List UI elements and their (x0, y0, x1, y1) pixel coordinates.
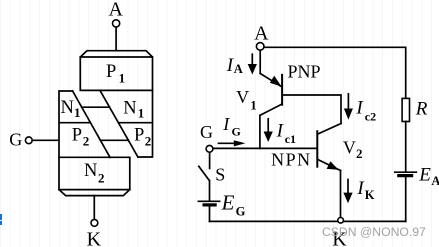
N1-P2 left box outline (59, 91, 90, 157)
battery EG (198, 201, 219, 205)
node G circle (circuit) (206, 145, 213, 152)
wire EA to bottom (405, 177, 407, 221)
label P1 (106, 62, 125, 86)
svg-text:2: 2 (98, 170, 105, 185)
label IK (356, 178, 374, 202)
terminal label K (left structure) (87, 228, 102, 247)
label P2 right (134, 126, 151, 149)
svg-text:A: A (108, 0, 123, 21)
wire A lead (left structure) (115, 27, 117, 50)
label V2 (343, 137, 363, 161)
svg-text:1: 1 (138, 105, 145, 120)
label Ic1 (276, 120, 296, 146)
V1 emitter diagonal with arrowhead (PNP) (260, 74, 281, 87)
svg-text:N: N (123, 99, 136, 119)
terminal label G (left structure) (9, 129, 22, 149)
terminal label A (left structure) (108, 0, 123, 21)
svg-text:P: P (106, 62, 116, 82)
wire V1 collector down to gate line (259, 115, 261, 148)
label S (215, 165, 225, 185)
svg-text:1: 1 (74, 105, 81, 120)
V1 collector diagonal (260, 104, 282, 115)
node label K (circuit) (332, 229, 347, 247)
label N2 (84, 161, 105, 185)
wire V2 emitter down to K (340, 171, 342, 218)
svg-text:A: A (431, 174, 439, 188)
current arrow IG (219, 140, 246, 146)
svg-text:V: V (343, 137, 356, 157)
svg-text:P: P (72, 126, 82, 146)
N1-P2 right box outline (118, 90, 152, 157)
diagonal cut line 2 (100, 90, 138, 157)
svg-text:E: E (221, 190, 235, 214)
current arrow IK (343, 180, 352, 204)
node label G (circuit) (200, 122, 213, 142)
svg-text:R: R (415, 98, 428, 119)
svg-text:c2: c2 (365, 109, 376, 123)
svg-text:c1: c1 (285, 132, 296, 146)
svg-text:PNP: PNP (288, 62, 321, 82)
node K circle (circuit) (338, 218, 344, 224)
label R (415, 98, 428, 119)
P1 layer slab (3D box) (80, 51, 152, 91)
label PNP (288, 62, 321, 82)
terminal K circle (left structure) (91, 220, 98, 227)
svg-text:G: G (236, 205, 246, 219)
svg-text:2: 2 (356, 146, 363, 161)
svg-text:2: 2 (145, 134, 152, 149)
svg-text:2: 2 (83, 134, 90, 149)
svg-text:A: A (254, 23, 269, 45)
svg-text:G: G (232, 125, 241, 139)
transistor V2 base bar (316, 131, 318, 167)
svg-text:K: K (87, 228, 102, 247)
svg-text:G: G (200, 122, 213, 142)
label EA (418, 164, 439, 188)
svg-text:V: V (236, 87, 249, 107)
junction step line lower (band) (100, 139, 128, 141)
label V1 (236, 87, 257, 112)
svg-text:N: N (61, 98, 74, 118)
wire bottom rail (210, 220, 406, 222)
label N1 right (123, 99, 144, 121)
svg-text:NPN: NPN (271, 150, 312, 170)
current arrow IA (248, 54, 257, 74)
wire G lead (left structure) (32, 139, 58, 141)
wire gate line (G to NPN base) (213, 147, 317, 149)
wire K lead (left structure) (93, 196, 95, 220)
wire EG to bottom rail (209, 207, 211, 222)
switch S blade (199, 166, 210, 180)
battery EA (395, 172, 417, 175)
svg-text:N: N (84, 161, 97, 181)
svg-text:I: I (222, 114, 230, 134)
blue sliver at left edge (0, 214, 2, 220)
label Ic2 (355, 97, 376, 123)
transistor V1 base bar (281, 75, 283, 105)
resistor R (402, 98, 409, 121)
V2 emitter diagonal with arrowhead (318, 160, 341, 171)
svg-text:S: S (215, 165, 225, 185)
terminal A circle (left structure) (113, 20, 120, 27)
label IG (222, 114, 241, 139)
svg-text:I: I (355, 97, 364, 118)
node label A (circuit) (254, 23, 269, 45)
wire top (A to R branch) (264, 47, 406, 98)
V2 collector diagonal (NPN) (318, 124, 341, 135)
junction step line upper (band) (82, 106, 110, 108)
label EG (221, 190, 246, 218)
N2 layer slab (3D box) (59, 157, 130, 195)
svg-text:K: K (365, 188, 375, 202)
switch S upper lead (209, 152, 211, 168)
current arrow Ic1 (264, 119, 273, 142)
wire R to EA (405, 122, 407, 172)
label IA (226, 55, 243, 76)
terminal G circle (left structure) (25, 137, 32, 144)
svg-text:1: 1 (250, 98, 256, 113)
node A circle (circuit) (256, 43, 264, 51)
svg-text:A: A (234, 62, 243, 76)
svg-text:G: G (9, 129, 22, 149)
svg-text:P: P (134, 126, 144, 146)
diagonal cut line 1 (73, 91, 110, 157)
label P2 left (72, 126, 90, 149)
wire V1 base to V2 collector (283, 95, 341, 124)
watermark CSDN (322, 225, 432, 239)
svg-text:E: E (418, 164, 431, 185)
label N1 left (61, 98, 81, 120)
svg-text:1: 1 (119, 71, 126, 86)
svg-text:I: I (276, 120, 285, 141)
wire A to V1 emitter (vertical) (259, 50, 261, 73)
current arrow Ic2 (344, 94, 353, 120)
wire switch to EG (209, 181, 211, 202)
label NPN (271, 150, 312, 170)
